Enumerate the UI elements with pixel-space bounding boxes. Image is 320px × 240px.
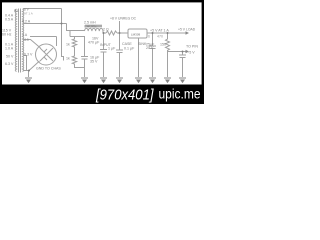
- svg-text:+5 V AT 1 A: +5 V AT 1 A: [150, 29, 169, 33]
- svg-text:6.3 V: 6.3 V: [24, 53, 33, 57]
- svg-text:1 μF: 1 μF: [108, 47, 116, 51]
- svg-text:50 V: 50 V: [6, 55, 14, 59]
- svg-text:1.0 A: 1.0 A: [5, 47, 14, 51]
- svg-text:CHOKE: CHOKE: [84, 25, 97, 29]
- svg-text:0.5 A: 0.5 A: [5, 18, 14, 22]
- svg-text:6.3 V: 6.3 V: [5, 62, 14, 66]
- svg-text:0.2 A: 0.2 A: [22, 20, 31, 24]
- svg-text:TO PIN: TO PIN: [186, 45, 198, 49]
- svg-text:25 V: 25 V: [146, 46, 154, 50]
- svg-text:CASE: CASE: [122, 42, 132, 46]
- svg-text:1k: 1k: [66, 57, 70, 61]
- svg-text:150: 150: [160, 43, 166, 47]
- svg-text:+5 V LOAD: +5 V LOAD: [178, 28, 196, 32]
- svg-text:470: 470: [157, 35, 163, 39]
- svg-text:1 A: 1 A: [22, 33, 28, 37]
- svg-text:LM309: LM309: [131, 32, 141, 36]
- svg-text:B1: B1: [14, 9, 18, 13]
- svg-text:AT 1 A: AT 1 A: [24, 12, 33, 16]
- svg-text:6: 6: [148, 35, 150, 39]
- svg-text:0.1 μF: 0.1 μF: [124, 47, 135, 51]
- svg-text:1k: 1k: [66, 43, 70, 47]
- svg-text:upic.me: upic.me: [159, 87, 201, 102]
- svg-text:+8 V UNREG DC: +8 V UNREG DC: [110, 17, 137, 21]
- svg-text:2 Ω: 2 Ω: [103, 28, 109, 32]
- svg-text:GND TO CHAS: GND TO CHAS: [36, 67, 61, 71]
- svg-text:470 μF: 470 μF: [88, 41, 100, 45]
- svg-text:35 V: 35 V: [90, 60, 98, 64]
- svg-text:115: 115: [23, 38, 29, 42]
- svg-text:[970x401]: [970x401]: [95, 87, 154, 103]
- svg-text:60 Hz: 60 Hz: [2, 33, 12, 37]
- svg-text:-5 V: -5 V: [188, 51, 195, 55]
